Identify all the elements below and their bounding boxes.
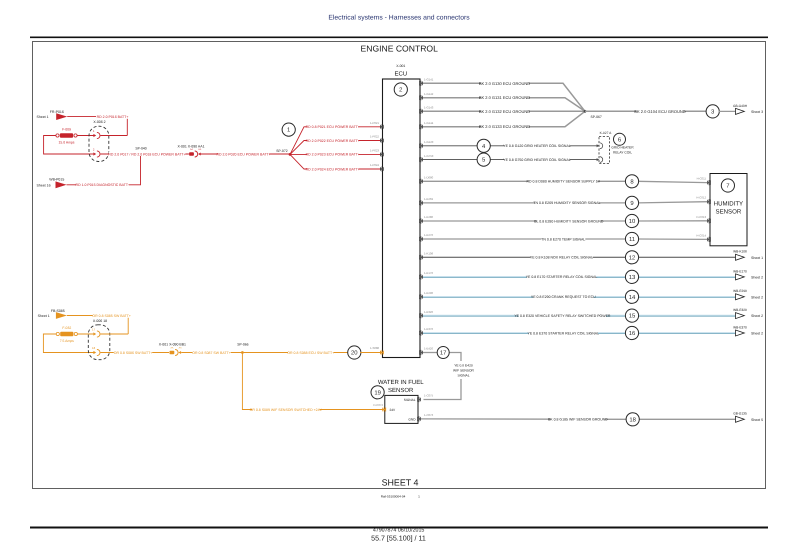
svg-text:14: 14 [629, 294, 636, 301]
svg-text:F-032: F-032 [62, 326, 71, 330]
svg-text:TN 0.8 E269 HUMIDITY SENSOR SI: TN 0.8 E269 HUMIDITY SENSOR SIGNAL [533, 201, 600, 205]
svg-text:18: 18 [92, 346, 96, 350]
svg-text:BK 2.0 G131 ECU GROUND: BK 2.0 G131 ECU GROUND [479, 95, 530, 100]
wire OR 0.8 S087 SW BATT+ [181, 350, 242, 355]
wire fuse to connector X-006 pin 1 [77, 135, 94, 137]
svg-text:WB-K108: WB-K108 [733, 250, 747, 254]
connector X-006 18 [88, 319, 110, 360]
svg-text:X-001 X-090 BB1: X-001 X-090 BB1 [159, 343, 186, 347]
svg-text:1-G120: 1-G120 [424, 140, 434, 144]
svg-text:RD 2.0 P017 / RD 2.0 P018 ECU: RD 2.0 P017 / RD 2.0 P018 ECU POWER BATT… [108, 152, 185, 156]
svg-text:Electrical systems - Harnesses: Electrical systems - Harnesses and conne… [328, 15, 470, 22]
svg-text:1-D080: 1-D080 [424, 176, 434, 180]
svg-text:X-006 2: X-006 2 [93, 120, 105, 124]
svg-text:H-C012: H-C012 [696, 196, 706, 200]
page header text [328, 15, 470, 22]
off-sheet arrow WB-E320 Sheet 2 [733, 308, 763, 319]
svg-text:1-G141: 1-G141 [424, 78, 434, 82]
off-sheet arrow GB-G43H Sheet 3 [733, 104, 763, 115]
svg-text:WIF SENSOR: WIF SENSOR [453, 369, 474, 373]
pin 1-G750 [419, 154, 434, 162]
callout 6 [614, 133, 626, 145]
off-sheet arrow GB-G135 Sheet 5 [733, 412, 763, 423]
pin 1-K108 [419, 252, 433, 260]
wire BK 0.8 G185 WIF SENSOR GROUND [421, 417, 736, 422]
humidity sensor pins [696, 177, 711, 242]
svg-text:YE 0.8 E290 CRANK REQUEST TO E: YE 0.8 E290 CRANK REQUEST TO ECU [531, 295, 596, 299]
wire pin1 to P016 drop [100, 135, 127, 137]
svg-text:BK 0.8 G185 WIF SENSOR GROUND: BK 0.8 G185 WIF SENSOR GROUND [548, 417, 608, 421]
water in fuel sensor box [378, 379, 424, 423]
svg-text:YE 0.8 G750 GRID HEATER COIL S: YE 0.8 G750 GRID HEATER COIL SIGNAL [503, 158, 571, 162]
sheet title SHEET 4 [382, 478, 419, 488]
svg-text:Sheet 3: Sheet 3 [751, 110, 763, 114]
wire fuse feed loop to pin 18 [43, 334, 93, 353]
callout 19 [371, 386, 384, 399]
svg-text:YE 0.8 G120 GRID HEATER COIL S: YE 0.8 G120 GRID HEATER COIL SIGNAL [503, 144, 571, 148]
callout 20 [348, 346, 361, 359]
svg-text:OR 0.8 S088 ECU SW BATT+: OR 0.8 S088 ECU SW BATT+ [287, 351, 334, 355]
header rule [30, 36, 768, 38]
svg-text:BL 0.8 E280 HUMIDITY SENSOR GR: BL 0.8 E280 HUMIDITY SENSOR GROUND [534, 219, 604, 223]
svg-text:YE 0.8 E370 STARTER RELAY COIL: YE 0.8 E370 STARTER RELAY COIL SIGNAL [528, 331, 600, 335]
svg-text:55.7 [55.100] / 11: 55.7 [55.100] / 11 [371, 535, 426, 543]
pin 1-E290 [419, 291, 433, 299]
svg-text:WATER IN FUEL: WATER IN FUEL [378, 379, 424, 386]
wire RD 2.0 P016 BATT+ [67, 114, 129, 135]
svg-text:X-001: X-001 [396, 64, 405, 68]
svg-text:X-006 18: X-006 18 [93, 319, 107, 323]
wire YE 0.8 E170 STARTER RELAY COIL SIGNAL [422, 275, 736, 280]
svg-text:WB-E170: WB-E170 [733, 269, 747, 273]
wire RD 0.8 D080 HUMIDITY SENSOR SUPPLY 5V [422, 179, 707, 184]
svg-text:Sheet 1: Sheet 1 [37, 115, 49, 119]
svg-text:RELAY COIL: RELAY COIL [613, 151, 632, 155]
svg-text:H-C011: H-C011 [697, 177, 707, 181]
svg-text:GB-G135: GB-G135 [733, 412, 747, 416]
svg-text:SHEET 4: SHEET 4 [382, 478, 419, 488]
svg-text:13: 13 [629, 274, 636, 281]
svg-text:20: 20 [351, 350, 358, 357]
svg-text:1-E170: 1-E170 [424, 271, 433, 275]
svg-text:1-P021: 1-P021 [370, 121, 379, 125]
svg-text:SIGNAL: SIGNAL [457, 374, 469, 378]
pin 1-G143 [419, 106, 434, 114]
svg-text:9: 9 [630, 200, 633, 207]
svg-text:Sheet 1: Sheet 1 [751, 256, 763, 260]
svg-text:X-001 X-090 AA1: X-001 X-090 AA1 [177, 144, 204, 148]
svg-text:Rail-55100004-04: Rail-55100004-04 [381, 494, 406, 498]
svg-text:WB-P015: WB-P015 [49, 178, 64, 182]
pin 1-E320 [419, 310, 433, 318]
svg-text:7: 7 [726, 183, 729, 190]
svg-text:18: 18 [629, 416, 636, 423]
wire YE 0.8 E320 VEHICLE SAFETY RELAY SWITCHED POWER [422, 313, 736, 318]
svg-text:1-G142: 1-G142 [424, 92, 434, 96]
wire fuse to connector X-006 pin 17 [77, 333, 93, 335]
svg-text:FB-S085: FB-S085 [51, 309, 65, 313]
svg-text:BK 2.0 G132 ECU GROUND: BK 2.0 G132 ECU GROUND [479, 109, 530, 114]
svg-text:1-K108: 1-K108 [424, 252, 433, 256]
footer section number [371, 535, 426, 543]
pin 1-G144 [419, 121, 434, 129]
pin 1-E170 [419, 271, 433, 279]
pin 1-E370 [419, 327, 433, 335]
callout 15 [625, 309, 638, 322]
wire OR 0.8 S089 WIF SENSOR SWITCHED +24V [242, 353, 383, 412]
svg-text:Sheet 2: Sheet 2 [751, 332, 763, 336]
wire callout20 to ECU pin [360, 352, 381, 354]
svg-text:Sheet 1: Sheet 1 [38, 314, 50, 318]
svg-text:SENSOR: SENSOR [388, 387, 414, 394]
callout 9 [625, 196, 638, 209]
callout 5 [477, 153, 490, 166]
callout 17 [437, 347, 449, 359]
svg-text:1-G144: 1-G144 [424, 121, 434, 125]
svg-text:SIGNAL: SIGNAL [404, 398, 416, 402]
title ENGINE CONTROL [361, 44, 439, 54]
footer document number [373, 528, 425, 534]
svg-text:WB-E320: WB-E320 [733, 308, 747, 312]
callout 1 [282, 123, 295, 136]
ECU X-001 block [383, 64, 421, 358]
wire BK 2.0 G130 ECU GROUND [422, 81, 585, 112]
splice SP-066 [237, 343, 248, 354]
svg-text:1-P023: 1-P023 [370, 149, 379, 153]
svg-text:12: 12 [629, 254, 636, 261]
callout 10 [625, 214, 638, 227]
wire RD 2.0 P017 / RD 2.0 P018 ECU POWER BATT+ [100, 153, 188, 155]
callout 13 [625, 270, 638, 283]
callout 12 [625, 251, 638, 264]
wire BK 2.0 G104 ECU GROUND [585, 109, 707, 114]
callout 4 [477, 139, 490, 152]
off-sheet source FB-S085 Sheet 1 [38, 309, 67, 319]
callout 18 [626, 413, 639, 426]
svg-text:1-E290: 1-E290 [424, 291, 433, 295]
svg-text:RD 2.0 P023 ECU POWER BATT+: RD 2.0 P023 ECU POWER BATT+ [306, 153, 360, 157]
wire BK 2.0 G132 ECU GROUND [422, 109, 585, 114]
wire OR 0.8 S088 ECU SW BATT+ [242, 350, 348, 355]
wire YE 0.8 G120 GRID HEATER COIL SIGNAL [422, 145, 598, 147]
svg-text:1: 1 [418, 494, 420, 498]
callout 7 [721, 179, 734, 192]
svg-text:H-C072: H-C072 [373, 403, 383, 407]
svg-text:1-E370: 1-E370 [424, 327, 433, 331]
wire TN 0.8 E269 HUMIDITY SENSOR SIGNAL [422, 201, 707, 206]
pin 1-D080 [419, 176, 434, 184]
wire BK 2.0 G133 ECU GROUND [422, 111, 585, 129]
ECU pin 1-S088 [370, 346, 384, 355]
splice SP-072 [276, 149, 291, 156]
wire stub to off-sheet GB-G43H [719, 110, 736, 112]
svg-text:24V: 24V [390, 408, 397, 412]
svg-text:RD 0.8 D080 HUMIDITY SENSOR SU: RD 0.8 D080 HUMIDITY SENSOR SUPPLY 5V [527, 180, 601, 184]
off-sheet source WB-P015 Sheet 16 [37, 178, 67, 189]
svg-text:Sheet 5: Sheet 5 [751, 418, 763, 422]
drawing file note [381, 494, 420, 498]
fuse F-009 15.0 Amps [56, 128, 77, 145]
wire YE 0.8 E370 STARTER RELAY COIL SIGNAL [422, 331, 736, 336]
svg-text:1-P022: 1-P022 [370, 135, 379, 139]
pin 1-E270 [419, 233, 433, 241]
ECU pin 1-P021 [370, 121, 384, 129]
wire BK 2.0 G131 ECU GROUND [422, 95, 585, 111]
WIF signal pin H-C075 [417, 394, 434, 402]
svg-text:1-E420: 1-E420 [424, 347, 433, 351]
svg-text:K-027 A: K-027 A [600, 131, 613, 135]
svg-text:OR 0.8 S086 SW BATT+: OR 0.8 S086 SW BATT+ [114, 351, 153, 355]
callout 11 [625, 232, 638, 245]
svg-text:ENGINE CONTROL: ENGINE CONTROL [361, 44, 439, 54]
off-sheet arrow WB-E290 Sheet 2 [733, 289, 763, 300]
grid heater relay coil K-027 [597, 131, 635, 163]
ECU pin 1-P023 [370, 149, 384, 158]
svg-text:YE 0.8 E320 VEHICLE SAFETY REL: YE 0.8 E320 VEHICLE SAFETY RELAY SWITCHE… [514, 314, 611, 318]
svg-text:SP-040: SP-040 [135, 146, 146, 150]
svg-text:15.0 Amps: 15.0 Amps [58, 140, 74, 144]
splice SP-067 [584, 110, 602, 119]
off-sheet arrow WB-K108 Sheet 1 [733, 250, 763, 261]
svg-text:2: 2 [399, 87, 402, 94]
ECU pin 1-P024 [370, 163, 384, 172]
svg-text:GND: GND [408, 418, 416, 422]
svg-text:OR 0.8 S089 WIF SENSOR SWITCHE: OR 0.8 S089 WIF SENSOR SWITCHED +24V [250, 408, 323, 412]
svg-text:SP-072: SP-072 [276, 149, 287, 153]
svg-text:BK 2.0 G104 ECU GROUND: BK 2.0 G104 ECU GROUND [634, 109, 685, 114]
humidity sensor box [710, 174, 747, 246]
wire fuse feed loop to pin 2 [44, 136, 94, 155]
WIF 24V pin H-C072 [373, 403, 386, 412]
svg-text:Sheet 2: Sheet 2 [751, 295, 763, 299]
svg-text:1-S088: 1-S088 [370, 346, 379, 350]
pin 1-G142 [419, 92, 434, 100]
svg-text:OR 0.8 S085 SW BATT+: OR 0.8 S085 SW BATT+ [92, 314, 131, 318]
callout 14 [625, 290, 638, 303]
off-sheet arrow WB-E170 Sheet 2 [733, 269, 763, 280]
svg-text:RD 2.0 P016 BATT+: RD 2.0 P016 BATT+ [97, 115, 129, 119]
svg-text:YE 0.8 E170 STARTER RELAY COIL: YE 0.8 E170 STARTER RELAY COIL SIGNAL [526, 275, 598, 279]
pin 1-E280 [419, 215, 433, 223]
svg-text:ECU: ECU [394, 71, 407, 78]
off-sheet arrow WB-E370 Sheet 2 [733, 325, 763, 336]
wire YE 0.8 K108 NOX RELAY COIL SIGNAL [422, 255, 736, 260]
pin 1-E420 [419, 347, 433, 355]
svg-text:RD 0.8 P021 ECU POWER BATT+: RD 0.8 P021 ECU POWER BATT+ [306, 125, 360, 129]
callout 2 [394, 83, 407, 96]
svg-text:TN 0.8 E270 TEMP SIGNAL: TN 0.8 E270 TEMP SIGNAL [541, 237, 585, 241]
svg-text:10: 10 [629, 218, 636, 225]
svg-text:1-G143: 1-G143 [424, 106, 434, 110]
svg-text:Sheet 2: Sheet 2 [751, 275, 763, 279]
svg-text:1-P024: 1-P024 [370, 163, 379, 167]
callout 8 [625, 175, 638, 188]
wire RD 2.0 P022 ECU POWER BATT+ [290, 138, 381, 154]
svg-text:SP-066: SP-066 [237, 343, 248, 347]
svg-text:47907874 06/10/2015: 47907874 06/10/2015 [373, 528, 425, 534]
wire TN 0.8 E270 TEMP SIGNAL [422, 237, 707, 242]
svg-text:YE 0.8 E420: YE 0.8 E420 [454, 364, 473, 368]
wire pin17 to S085 drop [100, 333, 128, 335]
svg-text:1-G750: 1-G750 [424, 154, 434, 158]
svg-text:1-E269: 1-E269 [424, 197, 433, 201]
wire OR 0.8 S085 SW BATT+ [67, 313, 131, 334]
callout 16 [625, 326, 638, 339]
svg-text:SP-067: SP-067 [591, 115, 602, 119]
wire YE 0.8 E420 WIF SENSOR SIGNAL [422, 353, 477, 400]
svg-text:F-009: F-009 [62, 128, 71, 132]
svg-text:GRID HEATER: GRID HEATER [611, 146, 634, 150]
svg-text:11: 11 [629, 236, 635, 243]
svg-text:HUMIDITY: HUMIDITY [714, 200, 743, 207]
pin 1-E269 [419, 197, 433, 205]
svg-text:RD 1.0 P015 DIAGNOSTIC BATT+: RD 1.0 P015 DIAGNOSTIC BATT+ [76, 183, 131, 187]
pin 1-G120 [419, 140, 434, 148]
drawing frame [33, 42, 766, 489]
wire RD 0.8 P021 ECU POWER BATT+ [290, 125, 381, 155]
svg-text:1-E270: 1-E270 [424, 233, 433, 237]
off-sheet source FR-P016 Sheet 1 [37, 110, 68, 120]
connector X-006 2 [89, 120, 109, 161]
svg-text:1-C076: 1-C076 [424, 413, 434, 417]
svg-text:H-C014: H-C014 [696, 233, 706, 237]
WIF gnd pin H-C076 [417, 413, 434, 421]
wire RD 2.0 P024 ECU POWER BATT+ [290, 154, 381, 171]
svg-text:Sheet 16: Sheet 16 [37, 183, 51, 187]
svg-text:WB-E370: WB-E370 [733, 325, 747, 329]
inline connector X-001 X-090 BB1 [159, 343, 186, 356]
svg-text:1-E280: 1-E280 [424, 215, 433, 219]
svg-text:RD 2.0 P022 ECU POWER BATT+: RD 2.0 P022 ECU POWER BATT+ [306, 139, 360, 143]
ECU pin 1-P022 [370, 135, 384, 144]
wire RD 1.0 P015 DIAGNOSTIC BATT+ [67, 156, 141, 187]
wire YE 0.8 E290 CRANK REQUEST TO ECU [422, 295, 736, 300]
svg-text:BK 2.0 G130 ECU GROUND: BK 2.0 G130 ECU GROUND [479, 81, 530, 86]
pin 1-G141 [419, 78, 434, 86]
wire RD 2.0 P020 ECU POWER BATT+ [200, 152, 290, 157]
svg-text:Sheet 2: Sheet 2 [751, 314, 763, 318]
svg-text:7.5 Amps: 7.5 Amps [60, 339, 74, 343]
svg-text:1-C075: 1-C075 [424, 394, 434, 398]
wire YE 0.8 G750 GRID HEATER COIL SIGNAL [422, 159, 598, 161]
wire BL 0.8 E280 HUMIDITY SENSOR GROUND [422, 219, 707, 224]
svg-text:1: 1 [287, 127, 290, 134]
svg-text:16: 16 [629, 330, 636, 337]
svg-text:WB-E290: WB-E290 [733, 289, 747, 293]
fuse F-032 7.5 Amps [56, 326, 77, 343]
svg-text:YE 0.8 K108 NOX RELAY COIL SIG: YE 0.8 K108 NOX RELAY COIL SIGNAL [530, 256, 593, 260]
svg-text:RD 2.0 P024 ECU POWER BATT+: RD 2.0 P024 ECU POWER BATT+ [306, 167, 360, 171]
svg-text:17: 17 [92, 328, 96, 332]
svg-text:RD 2.0 P020 ECU POWER BATT+: RD 2.0 P020 ECU POWER BATT+ [216, 152, 270, 156]
svg-text:BK 2.0 G133 ECU GROUND: BK 2.0 G133 ECU GROUND [479, 124, 530, 129]
svg-text:1-E320: 1-E320 [424, 310, 433, 314]
wire RD 2.0 P023 ECU POWER BATT+ [290, 152, 381, 157]
inline connector X-001 X-090 AA1 [177, 144, 204, 157]
svg-text:SENSOR: SENSOR [716, 208, 742, 215]
footer rule [30, 527, 768, 529]
svg-text:GB-G43H: GB-G43H [733, 104, 748, 108]
callout 3 [706, 105, 719, 118]
svg-text:19: 19 [374, 389, 381, 396]
splice SP-040 [135, 146, 146, 155]
wire OR 0.8 S086 SW BATT+ [100, 350, 169, 355]
svg-text:OR 0.8 S087 SW BATT+: OR 0.8 S087 SW BATT+ [192, 351, 231, 355]
svg-text:17: 17 [440, 350, 447, 357]
svg-text:15: 15 [629, 313, 636, 320]
svg-text:H-C013: H-C013 [696, 215, 706, 219]
